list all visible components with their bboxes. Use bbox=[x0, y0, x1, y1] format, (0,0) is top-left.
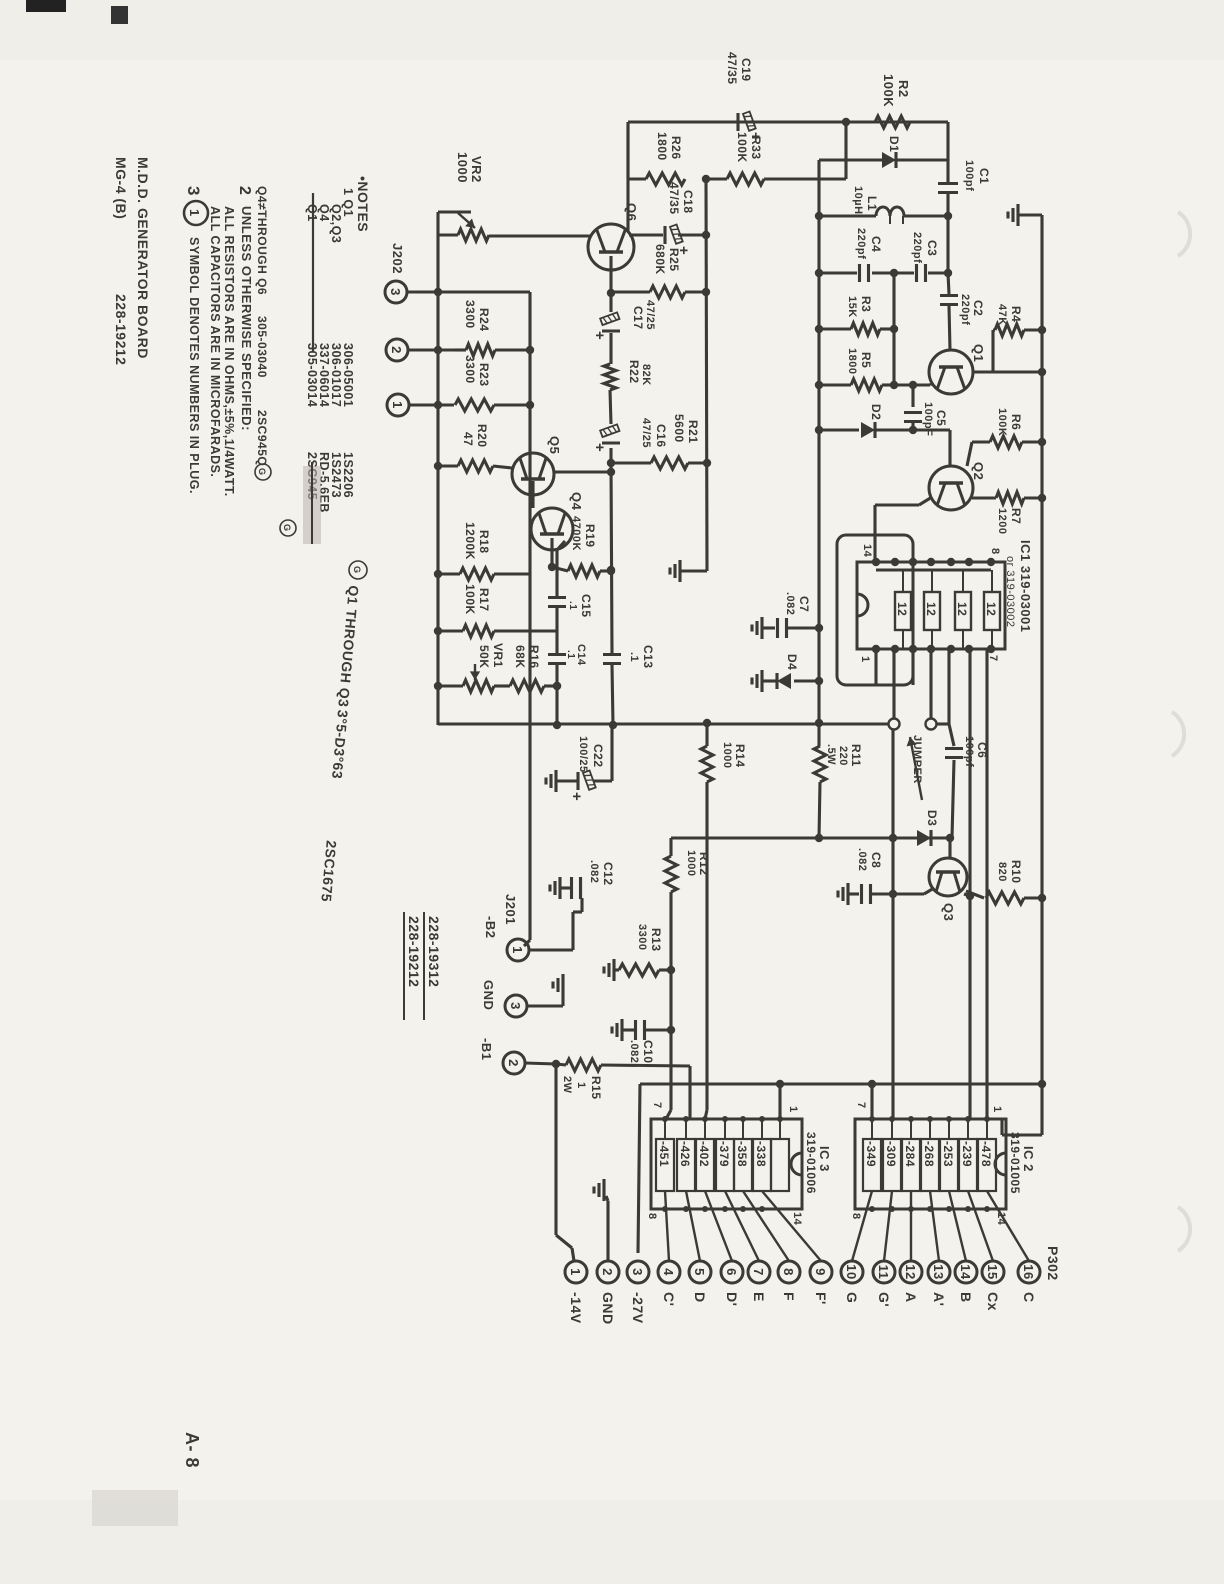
svg-text:R5: R5 bbox=[859, 352, 873, 368]
wire IC1 to IC2 line B bbox=[966, 649, 974, 1119]
svg-text:14: 14 bbox=[791, 1212, 803, 1226]
wire Q3 collector bbox=[966, 891, 984, 898]
wire R3R5 crossbar bbox=[890, 273, 898, 389]
svg-text:+: + bbox=[568, 792, 585, 801]
svg-text:9: 9 bbox=[813, 1268, 828, 1276]
label -B2 bbox=[483, 916, 498, 938]
transistor Q5 bbox=[512, 453, 554, 495]
title MG-4 (B) 228-19212 bbox=[113, 157, 129, 365]
label NOTES heading bbox=[355, 176, 371, 232]
svg-text:3: 3 bbox=[508, 1002, 523, 1010]
svg-text:100pf: 100pf bbox=[963, 736, 975, 767]
top rail bbox=[1040, 215, 1043, 1135]
svg-text:1: 1 bbox=[568, 1268, 583, 1276]
svg-text:7: 7 bbox=[855, 1102, 867, 1109]
note 2a text bbox=[222, 206, 236, 497]
svg-text:8: 8 bbox=[850, 1213, 862, 1220]
svg-text:13: 13 bbox=[931, 1264, 946, 1279]
connector J201 pin 2 bbox=[503, 1052, 525, 1074]
wire C5 branch bbox=[909, 381, 917, 407]
label D4 bbox=[785, 654, 799, 670]
IC3 resistor elements bbox=[656, 1116, 789, 1191]
IC3 fan-out wires bbox=[662, 1191, 821, 1261]
svg-text:3300: 3300 bbox=[636, 924, 648, 950]
label C12 .082 bbox=[588, 860, 615, 886]
wire bus to X838 bbox=[815, 782, 823, 842]
svg-text:4700K: 4700K bbox=[570, 516, 582, 551]
label R18 1200K bbox=[463, 522, 491, 560]
svg-text:-426: -426 bbox=[678, 1141, 692, 1167]
svg-text:SYMBOL DENOTES NUMBERS IN PLUG: SYMBOL DENOTES NUMBERS IN PLUG. bbox=[187, 237, 201, 494]
svg-text:47/35: 47/35 bbox=[725, 52, 739, 85]
wire Q1 collector up bbox=[973, 368, 1046, 376]
label R12 1000 bbox=[685, 850, 711, 876]
ground under C8 bbox=[838, 883, 859, 905]
svg-text:100K: 100K bbox=[881, 74, 896, 107]
svg-text:L1: L1 bbox=[865, 196, 879, 211]
svg-text:MG-4 (B): MG-4 (B) bbox=[113, 157, 129, 219]
wire D1 branch vertical bbox=[819, 158, 882, 161]
label C5 100pF bbox=[922, 402, 948, 436]
svg-text:10µH: 10µH bbox=[852, 186, 864, 215]
resistor R3 bbox=[815, 323, 898, 335]
capacitor C1 bbox=[938, 122, 958, 277]
svg-text:68K: 68K bbox=[513, 645, 527, 669]
label R4 47K bbox=[996, 304, 1023, 326]
wire jumper to C6 bbox=[937, 724, 955, 746]
wire rail corner up right end bbox=[438, 722, 888, 725]
svg-text:D: D bbox=[692, 1292, 708, 1303]
label IC2 319-01005 bbox=[1008, 1132, 1036, 1194]
wire Q1 emitter bbox=[930, 384, 931, 385]
svg-text:15K: 15K bbox=[846, 296, 858, 318]
label R24 3300 bbox=[463, 300, 491, 332]
label C18 47/35 bbox=[667, 182, 695, 215]
svg-text:8: 8 bbox=[781, 1268, 796, 1276]
svg-text:C16: C16 bbox=[654, 424, 668, 448]
svg-text:E: E bbox=[751, 1292, 767, 1302]
label R2 100K bbox=[881, 74, 911, 107]
wire Q3 emitter down bbox=[872, 888, 934, 894]
svg-text:R14: R14 bbox=[733, 744, 747, 768]
svg-text:1000: 1000 bbox=[685, 850, 697, 876]
diode D4 bbox=[752, 670, 823, 692]
connector J202 pin 2 bbox=[386, 339, 408, 361]
svg-text:-309: -309 bbox=[884, 1141, 898, 1167]
label C2 220pf bbox=[959, 294, 985, 325]
wire R33 branch bbox=[842, 118, 850, 179]
note 3 text bbox=[184, 186, 208, 494]
diode D2 bbox=[861, 422, 875, 438]
svg-text:C17: C17 bbox=[631, 306, 645, 330]
label R22 82K bbox=[627, 360, 652, 386]
diode D3 bbox=[917, 830, 931, 846]
svg-text:-B1: -B1 bbox=[479, 1038, 494, 1060]
paper shading bbox=[0, 0, 1224, 60]
resistor R22 bbox=[604, 364, 616, 390]
wire C4C3 column bbox=[815, 269, 857, 277]
resistor R11 in bus bbox=[814, 746, 826, 782]
svg-text:.082: .082 bbox=[628, 1040, 640, 1063]
svg-text:C1: C1 bbox=[977, 168, 991, 184]
svg-text:1000: 1000 bbox=[721, 742, 733, 768]
svg-text:R26: R26 bbox=[669, 136, 683, 160]
svg-text:G: G bbox=[352, 566, 362, 574]
svg-text:C3: C3 bbox=[925, 240, 939, 256]
label R13 3300 bbox=[636, 924, 663, 952]
svg-text:D3: D3 bbox=[925, 810, 939, 826]
mid bus Y405 bbox=[815, 160, 823, 746]
svg-text:47/25: 47/25 bbox=[640, 418, 652, 448]
label C10 .082 bbox=[628, 1040, 655, 1064]
connector J201 pin 3 GND bbox=[505, 995, 527, 1017]
svg-text:GND: GND bbox=[600, 1292, 616, 1325]
svg-text:1: 1 bbox=[991, 1106, 1003, 1113]
svg-text:3300: 3300 bbox=[463, 300, 477, 329]
label JUMPER bbox=[907, 735, 923, 800]
capacitor C6 bbox=[945, 749, 963, 758]
svg-text:R33: R33 bbox=[749, 136, 763, 160]
svg-text:M.D.D. GENERATOR BOARD: M.D.D. GENERATOR BOARD bbox=[135, 157, 151, 359]
svg-text:-239: -239 bbox=[960, 1141, 974, 1167]
svg-text:8: 8 bbox=[989, 548, 1001, 555]
svg-text:100/25: 100/25 bbox=[577, 736, 589, 773]
transistor Q6 bbox=[588, 224, 634, 270]
wire X838 column bbox=[671, 836, 952, 839]
label R26 1800 bbox=[655, 132, 683, 161]
svg-text:12: 12 bbox=[903, 1264, 918, 1279]
label C6 100pf bbox=[963, 736, 989, 767]
wire GND pin line bbox=[606, 1196, 608, 1261]
note 2 text bbox=[236, 186, 254, 431]
svg-text:220pf: 220pf bbox=[959, 294, 971, 325]
svg-text:C10: C10 bbox=[641, 1040, 655, 1064]
svg-text:319-01006: 319-01006 bbox=[804, 1132, 818, 1194]
jumper lower circle bbox=[889, 649, 900, 730]
svg-text:-402: -402 bbox=[697, 1141, 711, 1167]
connector P302 pins bbox=[565, 1261, 1040, 1325]
svg-text:82K: 82K bbox=[640, 364, 652, 386]
capacitor C7 bbox=[752, 617, 823, 639]
resistor R19 bbox=[552, 565, 615, 577]
svg-text:R19: R19 bbox=[583, 524, 597, 548]
wire Q5 base to Q4 bbox=[531, 481, 534, 508]
svg-text:-338: -338 bbox=[754, 1141, 768, 1167]
wire pin3 to ground bbox=[527, 996, 563, 1006]
label VR2 1000 bbox=[455, 152, 484, 183]
resistor R7 bbox=[972, 492, 1046, 504]
label VR1 50K bbox=[477, 643, 505, 669]
svg-text:C8: C8 bbox=[869, 852, 883, 868]
capacitor C17 bbox=[591, 293, 620, 364]
svg-text:R18: R18 bbox=[477, 530, 491, 554]
svg-text:R16: R16 bbox=[527, 645, 541, 669]
svg-text:IC 2: IC 2 bbox=[1021, 1146, 1036, 1172]
svg-text:-14V: -14V bbox=[568, 1292, 584, 1324]
svg-text:C5: C5 bbox=[934, 410, 948, 426]
svg-text:R12: R12 bbox=[697, 852, 711, 876]
wire C1 to Q1 base bbox=[948, 273, 949, 294]
svg-text:C15: C15 bbox=[579, 594, 593, 618]
label J202 bbox=[390, 243, 405, 274]
svg-text:R3: R3 bbox=[859, 296, 873, 312]
label R6 100K bbox=[996, 408, 1023, 436]
scan marks left edge bbox=[26, 0, 128, 24]
scan smudge bottom bbox=[92, 1490, 178, 1526]
svg-text:+: + bbox=[591, 443, 608, 452]
note line 2 bbox=[329, 204, 343, 498]
wire pin1 up bbox=[409, 401, 454, 409]
wire R15 to IC3 bbox=[688, 1066, 691, 1119]
IC1 inner pin line bbox=[876, 568, 991, 571]
wire riser to IC3 pin1 bbox=[776, 1080, 784, 1119]
label D2 bbox=[869, 404, 883, 420]
svg-text:-268: -268 bbox=[922, 1141, 936, 1167]
resistor R26 bbox=[628, 122, 710, 185]
svg-text:8: 8 bbox=[646, 1213, 658, 1220]
transistor Q3 bbox=[929, 858, 967, 896]
label D3 bbox=[925, 810, 939, 826]
svg-text:.082: .082 bbox=[588, 860, 600, 883]
top rail ground bbox=[1008, 204, 1042, 226]
label C13 .1 bbox=[628, 645, 655, 669]
label R3 15K bbox=[846, 296, 873, 318]
svg-text:C12: C12 bbox=[601, 862, 615, 886]
wire C6 to D3 node bbox=[952, 760, 954, 838]
wire pin2 up bbox=[408, 346, 455, 354]
label IC1 319-03001 bbox=[1004, 540, 1033, 633]
svg-text:R17: R17 bbox=[477, 588, 491, 612]
svg-text:Q4: Q4 bbox=[569, 492, 584, 511]
part number 228-19312 bbox=[404, 912, 442, 1020]
svg-text:R23: R23 bbox=[477, 363, 491, 387]
label C4 220pf bbox=[855, 228, 883, 259]
label R7 1200 bbox=[996, 508, 1023, 534]
resistor R14 bbox=[701, 719, 713, 782]
svg-text:-349: -349 bbox=[864, 1141, 878, 1167]
wire C3 to C1 line bbox=[928, 271, 948, 274]
wire R12 line to IC3 bbox=[666, 892, 675, 1119]
wire C22 branch bbox=[593, 725, 612, 781]
svg-text:-B2: -B2 bbox=[483, 916, 498, 938]
IC1 pin labels bbox=[859, 544, 1001, 663]
wire Q2 emitter down to IC1 bbox=[875, 497, 932, 562]
label Q6 bbox=[624, 203, 639, 221]
svg-text:C18: C18 bbox=[681, 190, 695, 214]
svg-text:R6: R6 bbox=[1009, 414, 1023, 430]
svg-text:C': C' bbox=[661, 1292, 677, 1306]
wire Y613 line to C13 bbox=[607, 463, 615, 653]
label C22 100/25 bbox=[577, 736, 605, 773]
svg-text:50K: 50K bbox=[477, 645, 491, 669]
svg-text:100pf: 100pf bbox=[963, 160, 975, 191]
wire Q4 collector to C15 line bbox=[557, 541, 565, 550]
svg-text:.082: .082 bbox=[856, 848, 868, 871]
svg-text:R10: R10 bbox=[1009, 860, 1023, 884]
svg-text:220: 220 bbox=[837, 746, 849, 766]
punch hole marks right edge bbox=[1172, 212, 1190, 1251]
variable resistor VR2 bbox=[438, 213, 489, 241]
wire -14V line bbox=[556, 1064, 574, 1261]
svg-text:A- 8: A- 8 bbox=[182, 1432, 202, 1468]
svg-text:R15: R15 bbox=[589, 1076, 603, 1100]
svg-text:ALL CAPACITORS ARE IN MICROFAR: ALL CAPACITORS ARE IN MICROFARADS. bbox=[208, 206, 222, 477]
svg-text:1800: 1800 bbox=[846, 348, 858, 374]
IC3 pin labels bbox=[646, 1102, 803, 1226]
wire C18 to rail bbox=[678, 231, 710, 239]
svg-text:R21: R21 bbox=[686, 420, 700, 444]
svg-text:-478: -478 bbox=[979, 1141, 993, 1167]
wire R6 to Q2 collector bbox=[967, 442, 972, 466]
label C14 .1 bbox=[565, 644, 587, 666]
label C15 bbox=[567, 594, 593, 618]
wire C4 to C3 bbox=[872, 269, 914, 277]
svg-text:1800: 1800 bbox=[655, 132, 669, 161]
wire R22 to C16 bbox=[610, 390, 611, 424]
svg-text:2: 2 bbox=[600, 1268, 615, 1276]
wire rail left end up to VR2 bbox=[438, 210, 471, 213]
svg-text:C: C bbox=[1021, 1292, 1037, 1303]
connector J202 pin 3 bbox=[385, 281, 407, 303]
label R16 68K bbox=[513, 645, 541, 669]
label C3 220pf bbox=[911, 232, 939, 263]
svg-text:11: 11 bbox=[876, 1265, 891, 1280]
svg-text:VR1: VR1 bbox=[491, 643, 505, 668]
label J201 bbox=[503, 894, 518, 925]
capacitor C3 bbox=[917, 264, 926, 282]
svg-text:G': G' bbox=[876, 1292, 892, 1307]
wire to Q6 collector bbox=[626, 122, 629, 232]
ground under R13 bbox=[604, 959, 614, 981]
label -B1 bbox=[479, 1038, 494, 1060]
IC3 body bbox=[651, 1119, 802, 1209]
svg-text:1200K: 1200K bbox=[463, 522, 477, 560]
svg-text:.1: .1 bbox=[567, 601, 578, 610]
note line 5 bbox=[255, 186, 296, 536]
wire R14 line to IC3 bbox=[705, 782, 707, 1119]
IC1 body bbox=[857, 562, 1005, 649]
svg-text:100K: 100K bbox=[996, 408, 1008, 436]
svg-text:G: G bbox=[282, 524, 292, 532]
wire Q6 collector up bbox=[629, 233, 663, 236]
resistor R2 bbox=[875, 116, 910, 128]
svg-text:7: 7 bbox=[751, 1268, 766, 1276]
label D1 bbox=[887, 136, 901, 152]
resistor R33 bbox=[706, 173, 846, 185]
capacitor C2 bbox=[940, 296, 958, 305]
IC2 body bbox=[855, 1119, 1006, 1209]
svg-text:220pf: 220pf bbox=[855, 228, 867, 259]
svg-text:R24: R24 bbox=[477, 308, 491, 332]
svg-text:7: 7 bbox=[651, 1102, 663, 1109]
wire D2 to Q2 base bbox=[875, 430, 950, 466]
wire pin3 up bbox=[407, 288, 530, 296]
wire left vertical (top feed) bbox=[628, 120, 948, 123]
label C16 47/25 bbox=[640, 418, 668, 448]
svg-text:C4: C4 bbox=[869, 236, 883, 252]
svg-text:3: 3 bbox=[630, 1268, 645, 1276]
IC1 resistor elements bbox=[895, 570, 1000, 649]
capacitor C4 bbox=[860, 264, 869, 282]
wire IC1 to C6 corner bbox=[947, 649, 950, 724]
capacitor C19 bbox=[738, 111, 764, 141]
wire Q6 base right bbox=[607, 256, 615, 297]
IC2 resistor elements bbox=[863, 1116, 996, 1191]
wire C5 to D2 line bbox=[909, 423, 917, 434]
label Q1 bbox=[971, 344, 986, 362]
svg-text:228-19212: 228-19212 bbox=[113, 294, 129, 365]
resistor R20 bbox=[434, 460, 512, 472]
svg-text:47K: 47K bbox=[996, 304, 1008, 326]
svg-text:Q5: Q5 bbox=[547, 436, 562, 454]
resistor R13 bbox=[614, 964, 671, 976]
label GND bbox=[481, 980, 496, 1010]
svg-text:Q6: Q6 bbox=[624, 203, 639, 221]
resistor R16 bbox=[494, 680, 561, 692]
svg-text:-358: -358 bbox=[735, 1141, 749, 1167]
label Q3 bbox=[941, 903, 956, 921]
resistor R18 bbox=[434, 568, 531, 580]
title M.D.D. GENERATOR BOARD bbox=[135, 157, 151, 359]
page label A-8 bbox=[182, 1432, 202, 1468]
svg-text:C19: C19 bbox=[739, 58, 753, 82]
resistor R15 bbox=[556, 1059, 690, 1071]
svg-text:-253: -253 bbox=[941, 1141, 955, 1167]
svg-text:1: 1 bbox=[859, 656, 871, 663]
resistor R6 bbox=[972, 436, 1046, 448]
svg-text:2: 2 bbox=[506, 1059, 521, 1067]
svg-text:228-19312: 228-19312 bbox=[426, 916, 442, 987]
wire C12 route bbox=[529, 898, 582, 950]
capacitor C12 bbox=[560, 877, 582, 899]
svg-text:D2: D2 bbox=[869, 404, 883, 420]
svg-text:Q4≠THROUGH Q6: Q4≠THROUGH Q6 bbox=[255, 186, 269, 295]
svg-text:P302: P302 bbox=[1045, 1246, 1061, 1281]
svg-text:C2: C2 bbox=[971, 300, 985, 316]
wire C16 to junction bbox=[607, 448, 615, 467]
svg-text:F: F bbox=[781, 1292, 797, 1301]
wire Q5 collector up bbox=[554, 470, 611, 473]
label R19 4700K bbox=[570, 516, 597, 551]
wire D2 column bbox=[815, 426, 859, 434]
connector J201 pin 1 bbox=[507, 939, 529, 961]
wire circle1 to IC2 bbox=[889, 730, 897, 1120]
svg-text:2SC945Q: 2SC945Q bbox=[255, 410, 269, 466]
label R21 5600 bbox=[672, 414, 700, 444]
svg-text:16: 16 bbox=[1021, 1264, 1036, 1279]
svg-text:D4: D4 bbox=[785, 654, 799, 670]
svg-text:-379: -379 bbox=[717, 1141, 731, 1167]
svg-text:12: 12 bbox=[984, 602, 998, 616]
wire IC1 to IC2 line A bbox=[985, 649, 988, 1119]
svg-text:228-19212: 228-19212 bbox=[406, 916, 422, 987]
svg-text:1: 1 bbox=[187, 209, 202, 217]
wire Q3 base bbox=[946, 834, 954, 857]
transistor Q4 bbox=[531, 508, 573, 550]
svg-text:R11: R11 bbox=[849, 744, 863, 767]
label C8 .082 bbox=[856, 848, 883, 871]
label Q4 bbox=[569, 492, 584, 511]
ground under C22 bbox=[546, 770, 577, 792]
svg-text:D1: D1 bbox=[887, 136, 901, 152]
diode D1 bbox=[882, 152, 896, 168]
transistor Q2 bbox=[929, 466, 973, 510]
svg-text:J202: J202 bbox=[390, 243, 405, 274]
svg-text:R4: R4 bbox=[1009, 306, 1023, 322]
wire loop line C bbox=[911, 649, 914, 685]
wire C2 to Q1 bbox=[949, 306, 950, 350]
IC1 feedback loop bbox=[837, 535, 913, 685]
